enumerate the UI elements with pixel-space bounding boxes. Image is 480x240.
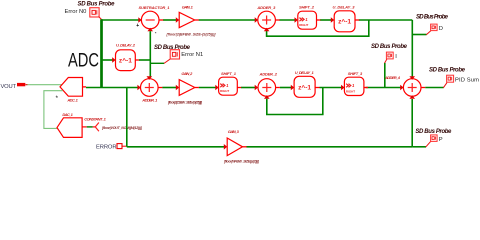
svg-text:GAIN_1: GAIN_1 (182, 4, 194, 9)
wire: U_DELAY_2 tap from bus (102, 59, 113, 61)
svg-text:ERROR: ERROR (96, 144, 117, 150)
probe I (371, 44, 408, 87)
svg-text:PID Sum: PID Sum (455, 77, 479, 83)
svg-text:D: D (439, 26, 443, 32)
probe P (415, 129, 452, 147)
svg-text:CONSTANT_1: CONSTANT_1 (84, 117, 106, 122)
adder ADDER_2 (255, 71, 280, 98)
svg-text:DAC_1: DAC_1 (62, 112, 73, 117)
svg-text:SD Bus Probe: SD Bus Probe (415, 129, 452, 135)
svg-text:Error N1: Error N1 (181, 52, 203, 58)
svg-text:SUBTRACTOR_1: SUBTRACTOR_1 (139, 5, 171, 10)
wire: ERROR branch down from middle row (126, 88, 128, 147)
delay U_DELAY_2 (112, 42, 139, 70)
probe Error N0 (65, 2, 116, 20)
svg-text:SD Bus Probe: SD Bus Probe (416, 15, 449, 21)
adc ADC_1 (56, 78, 87, 103)
subtractor SUBTRACTOR_1 (136, 5, 170, 36)
wire: D branch down to ADDER_4 top (412, 20, 426, 78)
svg-text:SHIFT_1: SHIFT_1 (221, 71, 237, 76)
adder ADDER_4 (384, 75, 425, 99)
svg-text:[floor(VOUT_NOM((M(12)))]: [floor(VOUT_NOM((M(12)))] (101, 126, 143, 130)
svg-text:z^-1: z^-1 (338, 17, 351, 25)
adder ADDER_3 (255, 5, 280, 31)
shift SHIFT_2 (295, 4, 321, 29)
wire: ADC feedback from DAC (analog) (44, 91, 63, 129)
delay U_DELAY_1 (291, 70, 320, 97)
svg-text:U_DELAY_1: U_DELAY_1 (295, 70, 315, 75)
svg-text:[floor(2(21BW_SIZE-(S(25)))]: [floor(2(21BW_SIZE-(S(25)))] (167, 101, 203, 105)
svg-text:P: P (439, 137, 443, 143)
svg-text:ADDER_4: ADDER_4 (384, 75, 401, 80)
svg-text:RIGHT: RIGHT (346, 89, 355, 93)
shift SHIFT_1 (215, 71, 241, 95)
svg-text:U_DELAY_2: U_DELAY_2 (116, 42, 136, 47)
dac DAC_1 (57, 112, 82, 138)
probe D (416, 15, 449, 35)
constant CONSTANT_1 (82, 117, 143, 132)
probe Error N1 (150, 45, 203, 64)
svg-text:GAIN_3: GAIN_3 (228, 129, 240, 134)
svg-text:[floor(2(BFBW_SIZE-(S(25)))]: [floor(2(BFBW_SIZE-(S(25)))] (166, 32, 217, 36)
svg-text:+: + (136, 23, 139, 29)
svg-text:RIGHT: RIGHT (299, 23, 308, 27)
svg-text:SHIFT_2: SHIFT_2 (299, 4, 315, 9)
svg-text:ADDER_1: ADDER_1 (141, 98, 158, 103)
adder ADDER_1 (137, 76, 162, 102)
text ADC (68, 49, 99, 71)
gain GAIN_2 (167, 71, 203, 105)
svg-text:RIGHT: RIGHT (220, 89, 229, 93)
svg-text:SD Bus Probe: SD Bus Probe (371, 44, 408, 50)
wire: ADDER_2 integrator feedback loop (267, 88, 323, 115)
port ERROR (96, 144, 126, 151)
svg-text:Error N0: Error N0 (65, 9, 87, 15)
svg-text:z^-1: z^-1 (119, 57, 132, 65)
probe PID Sum (425, 67, 479, 87)
svg-text:[floor(NFBW_SIZE(p(2)))]: [floor(NFBW_SIZE(p(2)))] (223, 160, 260, 164)
svg-text:SHIFT_3: SHIFT_3 (348, 71, 363, 76)
wire: ADDER_3 feedback loop (267, 20, 369, 36)
delay U_DELAY_3 (331, 4, 359, 31)
svg-text:z^-1: z^-1 (298, 83, 311, 91)
gain GAIN_3 (223, 129, 260, 163)
bus: thick vertical ADC output bus (100, 19, 103, 87)
svg-text:GAIN_2: GAIN_2 (181, 71, 193, 76)
svg-text:SD Bus Probe: SD Bus Probe (429, 67, 466, 73)
svg-text:U_DELAY_3: U_DELAY_3 (333, 4, 356, 9)
gain GAIN_1 (166, 4, 217, 36)
svg-text:ADC: ADC (68, 49, 99, 71)
wire: VOUT analog input (26, 84, 63, 86)
svg-text:SD Bus Probe: SD Bus Probe (78, 2, 116, 8)
svg-text:VOUT: VOUT (1, 84, 17, 90)
wire: bottom row (127, 99, 426, 147)
svg-text:ADDER_2: ADDER_2 (259, 71, 278, 76)
svg-text:ADDER_3: ADDER_3 (256, 5, 276, 10)
wire: middle row main (86, 87, 401, 89)
port VOUT (1, 83, 28, 90)
svg-text:ADC_1: ADC_1 (66, 98, 78, 103)
wire: top row main (102, 19, 413, 21)
wire: U_DELAY_2 output to vertical junction (139, 31, 150, 77)
shift SHIFT_3 (341, 71, 368, 95)
